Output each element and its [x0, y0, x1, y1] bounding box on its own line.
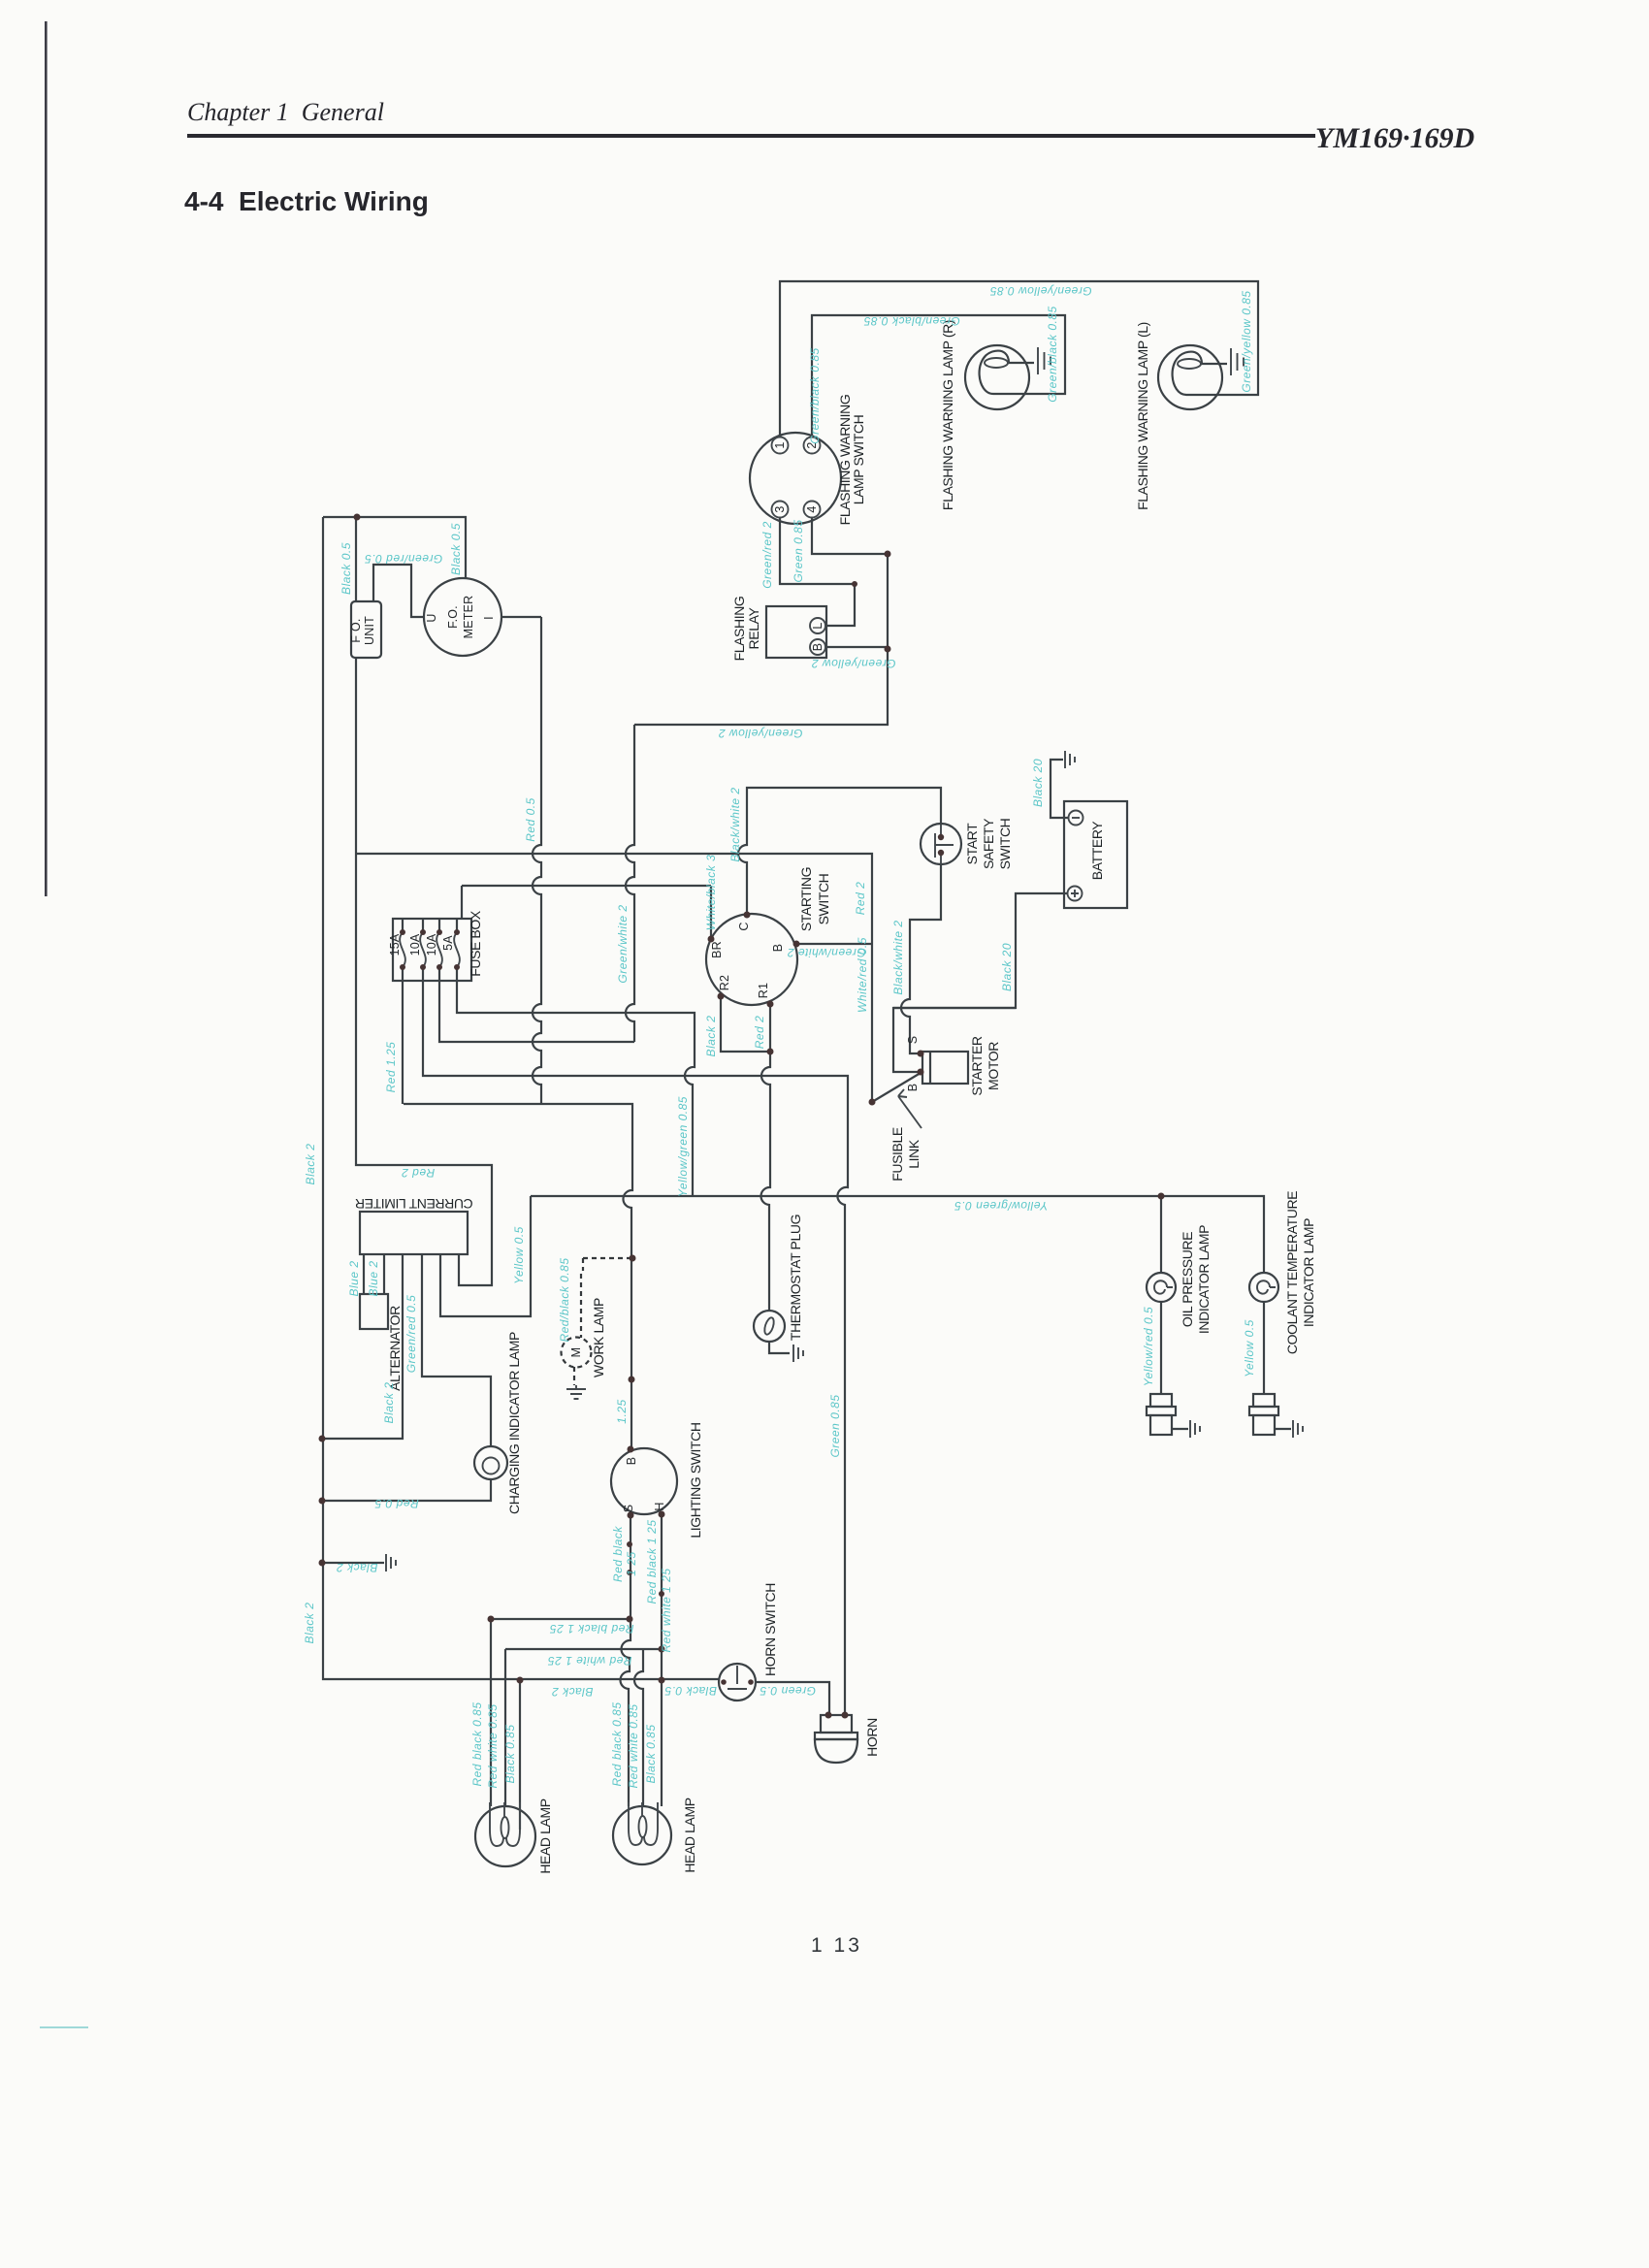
- svg-text:FLASHING: FLASHING: [731, 597, 747, 662]
- svg-text:Green/black 0.85: Green/black 0.85: [863, 314, 959, 328]
- svg-text:Red black 1 25: Red black 1 25: [549, 1622, 633, 1636]
- svg-text:I: I: [482, 616, 496, 620]
- svg-text:10A: 10A: [408, 933, 422, 956]
- svg-text:YM169·169D: YM169·169D: [1315, 122, 1474, 154]
- svg-text:HEAD LAMP: HEAD LAMP: [682, 1798, 697, 1872]
- svg-text:4: 4: [805, 505, 819, 512]
- svg-text:Red 0.5: Red 0.5: [374, 1497, 419, 1510]
- svg-text:Red black: Red black: [611, 1526, 625, 1582]
- svg-text:SWITCH: SWITCH: [997, 819, 1013, 870]
- svg-text:HORN SWITCH: HORN SWITCH: [762, 1583, 778, 1676]
- svg-text:Green/yellow 0.85: Green/yellow 0.85: [989, 284, 1091, 298]
- svg-text:METER: METER: [462, 596, 475, 639]
- svg-text:R2: R2: [718, 975, 731, 990]
- svg-text:1 13: 1 13: [811, 1934, 862, 1957]
- svg-text:Black 2: Black 2: [704, 1016, 718, 1057]
- svg-text:15A: 15A: [388, 933, 402, 956]
- svg-text:1.25: 1.25: [615, 1399, 629, 1423]
- svg-text:Green 0.85: Green 0.85: [792, 519, 805, 582]
- svg-text:Black 2: Black 2: [337, 1561, 378, 1574]
- svg-text:FUSIBLE: FUSIBLE: [889, 1127, 905, 1182]
- svg-text:Red 2: Red 2: [854, 882, 867, 916]
- svg-text:Black 20: Black 20: [1000, 943, 1014, 991]
- svg-text:LAMP SWITCH: LAMP SWITCH: [851, 415, 866, 505]
- svg-text:INDICATOR LAMP: INDICATOR LAMP: [1196, 1225, 1212, 1334]
- svg-text:Red/black 0.85: Red/black 0.85: [558, 1257, 571, 1342]
- svg-text:Red white 1 25: Red white 1 25: [660, 1568, 673, 1652]
- svg-text:10A: 10A: [425, 933, 438, 956]
- svg-text:Red white 1 25: Red white 1 25: [547, 1654, 631, 1668]
- svg-text:Yellow 0.5: Yellow 0.5: [1243, 1319, 1256, 1377]
- svg-text:Green 0.5: Green 0.5: [760, 1684, 816, 1698]
- svg-text:Green/red 0.5: Green/red 0.5: [365, 552, 443, 566]
- svg-text:HEAD LAMP: HEAD LAMP: [537, 1798, 553, 1873]
- svg-text:Black 20: Black 20: [1031, 759, 1045, 807]
- svg-text:M: M: [569, 1347, 583, 1358]
- svg-text:Black 0.85: Black 0.85: [644, 1724, 658, 1783]
- svg-text:Black 0.5: Black 0.5: [664, 1684, 717, 1698]
- svg-text:B: B: [625, 1457, 638, 1466]
- svg-text:S: S: [622, 1505, 635, 1513]
- svg-text:Black 2: Black 2: [304, 1144, 317, 1185]
- svg-text:Green/red 0.5: Green/red 0.5: [404, 1295, 418, 1374]
- svg-text:BR: BR: [710, 941, 724, 958]
- svg-text:CHARGING INDICATOR LAMP: CHARGING INDICATOR LAMP: [506, 1332, 522, 1514]
- svg-text:Black 2: Black 2: [303, 1603, 316, 1644]
- svg-text:COOLANT TEMPERATURE: COOLANT TEMPERATURE: [1284, 1191, 1300, 1354]
- svg-text:B: B: [906, 1084, 920, 1092]
- svg-text:ALTERNATOR: ALTERNATOR: [387, 1306, 403, 1391]
- svg-text:HORN: HORN: [864, 1718, 880, 1757]
- svg-text:Yellow/green 0.85: Yellow/green 0.85: [676, 1096, 690, 1197]
- svg-text:F O.: F O.: [349, 618, 363, 642]
- svg-text:Green/black 0.85: Green/black 0.85: [808, 347, 822, 443]
- svg-text:Blue 2: Blue 2: [347, 1260, 361, 1296]
- svg-text:WORK LAMP: WORK LAMP: [591, 1298, 606, 1377]
- svg-text:Red 2: Red 2: [402, 1166, 436, 1180]
- svg-text:SWITCH: SWITCH: [816, 874, 831, 925]
- svg-text:Red 0.5: Red 0.5: [524, 797, 537, 842]
- svg-text:LIGHTING SWITCH: LIGHTING SWITCH: [688, 1422, 703, 1538]
- svg-text:FLASHING WARNING LAMP (R): FLASHING WARNING LAMP (R): [940, 320, 955, 510]
- svg-text:Red 2: Red 2: [753, 1016, 766, 1050]
- svg-text:Black/white 2: Black/white 2: [728, 787, 742, 861]
- svg-text:Green/yellow 2: Green/yellow 2: [811, 657, 895, 670]
- svg-text:STARTING: STARTING: [798, 867, 814, 931]
- svg-text:1: 1: [773, 441, 787, 448]
- svg-text:Blue 2: Blue 2: [367, 1260, 380, 1296]
- svg-text:Green/red 2: Green/red 2: [760, 521, 774, 589]
- svg-text:THERMOSTAT PLUG: THERMOSTAT PLUG: [788, 1215, 803, 1341]
- svg-text:Red white 0.85: Red white 0.85: [486, 1703, 500, 1788]
- svg-text:FUSE BOX: FUSE BOX: [468, 910, 483, 977]
- svg-text:LINK: LINK: [906, 1139, 921, 1169]
- svg-text:Black 0.5: Black 0.5: [339, 542, 353, 595]
- svg-text:H: H: [653, 1502, 666, 1510]
- svg-text:B: B: [811, 643, 824, 652]
- svg-text:STARTER: STARTER: [969, 1036, 985, 1096]
- svg-text:R1: R1: [757, 983, 770, 998]
- svg-text:RELAY: RELAY: [746, 607, 761, 650]
- svg-text:UNIT: UNIT: [363, 616, 376, 645]
- svg-text:Black 2: Black 2: [382, 1382, 396, 1424]
- svg-text:Red white 0.85: Red white 0.85: [627, 1703, 640, 1788]
- svg-text:4-4 Electric Wiring: 4-4 Electric Wiring: [184, 186, 429, 216]
- svg-text:START: START: [964, 823, 980, 864]
- svg-text:Green 0.85: Green 0.85: [828, 1394, 842, 1457]
- svg-text:B: B: [771, 944, 785, 953]
- svg-text:5A: 5A: [441, 935, 455, 951]
- svg-text:White/black 3: White/black 3: [704, 855, 718, 931]
- svg-text:Yellow/red 0.5: Yellow/red 0.5: [1142, 1307, 1155, 1386]
- svg-text:Yellow 0.5: Yellow 0.5: [512, 1226, 526, 1284]
- svg-text:Red black 0.85: Red black 0.85: [610, 1701, 624, 1786]
- svg-text:Red black 1 25: Red black 1 25: [645, 1519, 659, 1604]
- svg-text:C: C: [737, 922, 751, 930]
- svg-text:3: 3: [773, 505, 787, 512]
- svg-text:Green/white 2: Green/white 2: [787, 946, 865, 959]
- svg-text:Chapter 1 General: Chapter 1 General: [187, 98, 384, 126]
- svg-text:BATTERY: BATTERY: [1089, 821, 1105, 881]
- svg-text:Green/yellow 2: Green/yellow 2: [718, 727, 802, 740]
- svg-text:Green/black 0.85: Green/black 0.85: [1046, 306, 1059, 402]
- svg-text:OIL PRESSURE: OIL PRESSURE: [1180, 1232, 1195, 1327]
- svg-text:1 25: 1 25: [625, 1551, 638, 1575]
- svg-text:Red black 0.85: Red black 0.85: [470, 1701, 484, 1786]
- svg-text:Black 2: Black 2: [552, 1685, 594, 1699]
- svg-text:FLASHING WARNING LAMP (L): FLASHING WARNING LAMP (L): [1135, 322, 1150, 510]
- svg-text:MOTOR: MOTOR: [986, 1042, 1001, 1090]
- svg-text:Red 1.25: Red 1.25: [384, 1042, 398, 1093]
- svg-text:S: S: [906, 1036, 920, 1045]
- svg-text:CURRENT LIMITER: CURRENT LIMITER: [355, 1196, 473, 1212]
- svg-text:Black/white 2: Black/white 2: [891, 920, 905, 994]
- svg-text:INDICATOR LAMP: INDICATOR LAMP: [1301, 1218, 1316, 1327]
- svg-text:Yellow/green 0.5: Yellow/green 0.5: [954, 1199, 1049, 1213]
- svg-text:Green/yellow 0.85: Green/yellow 0.85: [1240, 290, 1253, 392]
- svg-text:F.O.: F.O.: [446, 605, 460, 629]
- svg-text:U: U: [425, 613, 438, 622]
- svg-text:Green/white 2: Green/white 2: [616, 904, 630, 983]
- svg-text:Black 0.5: Black 0.5: [449, 523, 463, 575]
- svg-text:Black 0.85: Black 0.85: [503, 1724, 517, 1783]
- svg-text:SAFETY: SAFETY: [981, 818, 996, 869]
- svg-text:L: L: [811, 622, 824, 629]
